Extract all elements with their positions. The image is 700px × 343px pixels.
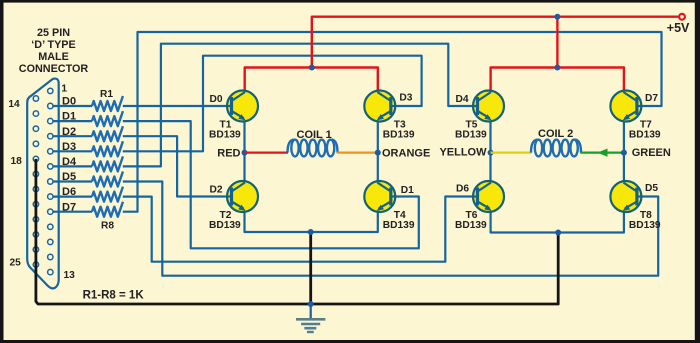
node GREEN <box>621 150 627 156</box>
wire +5V drop to right bridge (red) <box>556 17 558 68</box>
wire T7 emitter to coil node <box>623 120 625 153</box>
junction: red drop to right bridge <box>554 65 560 71</box>
wire: connector pin 7 to R6 <box>53 180 92 182</box>
svg-text:GREEN: GREEN <box>632 147 671 159</box>
transistor T2 BD139 <box>227 181 258 212</box>
transistor T4 BD139 <box>364 181 395 212</box>
svg-text:R1: R1 <box>100 89 113 100</box>
wire net D4: R5 to T5 base <box>123 44 478 167</box>
svg-text:BD139: BD139 <box>209 220 241 231</box>
svg-text:14: 14 <box>8 99 20 110</box>
node ORANGE <box>375 150 381 156</box>
connector left pin column (pins 14-25) <box>33 96 38 267</box>
ground wire from connector pin 18 along bottom (black) <box>36 159 558 304</box>
wire COIL2 to GREEN node (green) <box>580 152 624 154</box>
svg-text:D0: D0 <box>62 96 76 108</box>
svg-text:YELLOW: YELLOW <box>439 147 487 159</box>
svg-text:D7: D7 <box>62 201 76 213</box>
transistor T8 BD139 <box>610 181 641 212</box>
resistor R8 <box>92 202 123 217</box>
wire left bridge collector rail (red) <box>245 68 378 92</box>
wire T6 collector to coil node <box>489 153 491 183</box>
wire net D6: R7 to T6 base <box>123 197 478 262</box>
inductor COIL 1 <box>288 140 338 157</box>
resistor R2 <box>92 111 123 126</box>
connector right pin column (pins 1-13) <box>48 88 53 275</box>
svg-text:18: 18 <box>11 156 23 167</box>
junction: +5V rail tap <box>554 14 560 20</box>
svg-text:BD139: BD139 <box>209 130 241 141</box>
svg-text:D5: D5 <box>645 183 658 194</box>
transistor T7 BD139 <box>610 91 641 122</box>
wire T2 collector to coil node <box>243 153 245 183</box>
wire: connector pin 9 to R8 <box>53 211 92 213</box>
wire: connector pin 4 to R3 <box>53 135 92 137</box>
resistor R4 <box>92 141 123 156</box>
svg-text:D1: D1 <box>401 185 414 196</box>
svg-text:R1-R8 = 1K: R1-R8 = 1K <box>83 290 145 302</box>
svg-text:13: 13 <box>64 270 76 281</box>
wire T4 collector to coil node <box>377 153 379 183</box>
svg-text:D6: D6 <box>62 186 76 198</box>
wire net D2: R3 to T2 base <box>123 136 232 196</box>
svg-text:BD139: BD139 <box>629 130 661 141</box>
wire right bridge collector rail (red) <box>491 68 624 92</box>
svg-text:BD139: BD139 <box>455 220 487 231</box>
svg-text:ORANGE: ORANGE <box>382 148 430 160</box>
svg-text:D3: D3 <box>399 92 412 103</box>
wire net D3: R4 to T3 base <box>123 56 422 152</box>
transistor T1 BD139 <box>227 91 258 122</box>
junction: red rail to left bridge <box>309 65 315 71</box>
wire net D5: R6 to T8 base <box>123 182 658 276</box>
node YELLOW <box>488 150 494 156</box>
wire T8 collector to coil node <box>623 153 625 183</box>
resistor R6 <box>92 172 123 187</box>
wire +5V rail (red) <box>312 17 679 68</box>
wire T5 emitter to coil node <box>489 120 491 153</box>
junction: ground rail at GND symbol <box>308 301 314 307</box>
ground symbol <box>296 304 325 332</box>
svg-text:BD139: BD139 <box>383 220 415 231</box>
wire net D7: R8 to T7 base <box>123 32 662 212</box>
wire: connector pin 6 to R5 <box>53 165 92 167</box>
svg-text:‘D’ TYPE: ‘D’ TYPE <box>31 39 75 51</box>
svg-text:D2: D2 <box>62 126 76 138</box>
wire COIL1 to ORANGE node (orange) <box>337 152 378 154</box>
wire net D0: R1 to T1 base <box>123 105 232 107</box>
svg-text:COIL 1: COIL 1 <box>297 129 332 141</box>
ground wire from left bridge rail (black) <box>309 232 312 304</box>
svg-text:25 PIN: 25 PIN <box>37 27 70 39</box>
wire T3 emitter to coil node <box>377 120 379 153</box>
transistor T3 BD139 <box>364 91 395 122</box>
connector CON1: 25-pin D-type male, outline <box>27 79 59 289</box>
svg-text:D4: D4 <box>62 156 77 168</box>
svg-text:D3: D3 <box>62 141 76 153</box>
svg-text:MALE: MALE <box>38 51 69 63</box>
wire: connector pin 2 to R1 <box>53 105 92 107</box>
wire: connector pin 5 to R4 <box>53 150 92 152</box>
junction: right emitter rail to ground <box>555 230 561 236</box>
svg-text:D7: D7 <box>645 93 658 104</box>
svg-text:RED: RED <box>217 148 240 160</box>
svg-text:BD139: BD139 <box>383 130 415 141</box>
wire YELLOW node to COIL2 (yellow) <box>491 152 532 154</box>
svg-text:1: 1 <box>61 83 67 94</box>
arrow on GREEN wire <box>597 149 607 157</box>
svg-text:D6: D6 <box>456 184 469 195</box>
svg-text:D0: D0 <box>210 94 223 105</box>
svg-text:COIL 2: COIL 2 <box>538 128 573 140</box>
svg-text:CONNECTOR: CONNECTOR <box>19 63 89 75</box>
transistor T5 BD139 <box>473 91 504 122</box>
wire T1 emitter to coil node <box>243 120 245 153</box>
svg-text:D1: D1 <box>62 111 76 123</box>
resistor R7 <box>92 187 123 202</box>
inductor COIL 2 <box>531 140 581 157</box>
wire: connector pin 3 to R2 <box>53 120 92 122</box>
resistor R1 <box>92 96 123 111</box>
wire net D1: R2 to T4 base <box>123 121 419 248</box>
terminal +5V <box>679 14 685 20</box>
wire right bridge emitter rail <box>491 211 624 233</box>
wire RED node to COIL1 (red) <box>245 152 289 154</box>
svg-text:BD139: BD139 <box>629 220 661 231</box>
wire left bridge emitter rail <box>245 211 378 233</box>
wire: connector pin 8 to R7 <box>53 196 92 198</box>
svg-text:D4: D4 <box>456 94 469 105</box>
resistor R5 <box>92 156 123 171</box>
svg-text:25: 25 <box>10 258 22 269</box>
node RED <box>242 150 248 156</box>
svg-text:D5: D5 <box>62 171 76 183</box>
svg-text:BD139: BD139 <box>455 130 487 141</box>
svg-text:D2: D2 <box>210 185 223 196</box>
svg-text:+5V: +5V <box>667 21 690 35</box>
transistor T6 BD139 <box>473 181 504 212</box>
svg-text:R8: R8 <box>101 221 114 232</box>
resistor R3 <box>92 126 123 141</box>
junction: left emitter rail to ground <box>308 229 314 235</box>
label: 25 PIN D TYPE MALE CONNECTOR <box>19 27 89 75</box>
